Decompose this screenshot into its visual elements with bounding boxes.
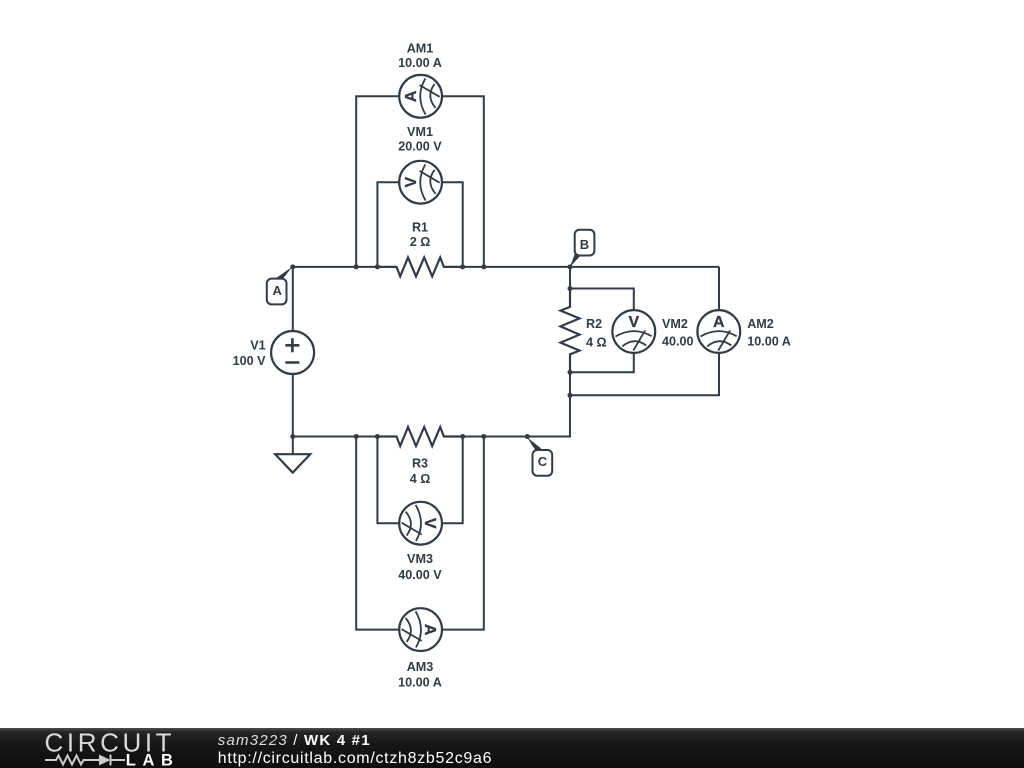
label VM3 <box>398 552 442 582</box>
wire VM3 loop right <box>441 437 462 524</box>
wire ground lead <box>292 437 294 455</box>
resistor R3 <box>377 427 462 446</box>
wire bottom main left <box>293 436 378 438</box>
svg-text:VM1: VM1 <box>407 125 433 139</box>
footer title <box>218 732 371 749</box>
logo CIRCUIT <box>45 728 176 758</box>
svg-text:V1: V1 <box>250 338 265 352</box>
svg-text:V: V <box>403 177 420 188</box>
svg-text:http://circuitlab.com/ctzh8zb5: http://circuitlab.com/ctzh8zb52c9a6 <box>218 750 492 767</box>
svg-text:40.00: 40.00 <box>662 334 694 348</box>
wire B vertical <box>569 267 571 289</box>
svg-text:R3: R3 <box>412 456 428 470</box>
ground <box>275 454 310 472</box>
svg-text:C: C <box>538 454 548 469</box>
footer url <box>218 750 492 767</box>
svg-text:100 V: 100 V <box>233 354 267 368</box>
voltmeter VM2 <box>612 310 655 353</box>
svg-text:A: A <box>421 624 438 636</box>
svg-text:sam3223 / WK 4 #1: sam3223 / WK 4 #1 <box>218 732 371 749</box>
svg-text:10.00 A: 10.00 A <box>398 675 442 689</box>
svg-text:40.00 V: 40.00 V <box>398 568 442 582</box>
svg-text:B: B <box>580 237 589 252</box>
junction dots top wire <box>290 264 572 269</box>
label R3 <box>410 456 431 486</box>
node B <box>570 230 594 267</box>
wire bottom main right <box>463 395 570 436</box>
label VM2 <box>662 317 694 348</box>
resistor R2 <box>561 288 580 373</box>
svg-text:VM2: VM2 <box>662 317 688 331</box>
svg-text:2 Ω: 2 Ω <box>410 235 431 249</box>
voltmeter VM3 <box>399 502 442 545</box>
svg-text:20.00 V: 20.00 V <box>398 140 442 154</box>
wire AM3 loop right <box>441 437 483 630</box>
label VM1 <box>398 125 442 153</box>
svg-text:AM2: AM2 <box>747 317 774 331</box>
wire top main left <box>293 266 378 268</box>
wire AM2 bottom <box>570 353 719 395</box>
wire VM2 top <box>570 289 634 311</box>
ammeter AM3 <box>399 608 442 651</box>
svg-text:4 Ω: 4 Ω <box>410 472 431 486</box>
wire VM1 loop right <box>441 182 462 267</box>
svg-text:10.00 A: 10.00 A <box>398 56 442 70</box>
label AM2 <box>747 317 791 348</box>
label R2 <box>586 317 607 349</box>
label AM3 <box>398 660 442 689</box>
logo doodle wire resistor diode <box>45 755 125 766</box>
svg-text:R1: R1 <box>412 221 428 235</box>
ammeter AM2 <box>697 310 740 353</box>
voltage source V1 <box>271 331 314 374</box>
wire V1 top <box>292 267 294 331</box>
svg-text:4 Ω: 4 Ω <box>586 336 607 350</box>
junction dots right branch <box>568 286 573 398</box>
label V1 <box>233 338 267 368</box>
node C <box>527 437 552 476</box>
voltmeter VM1 <box>399 161 442 204</box>
wire R2 to AM2 junction <box>569 372 571 395</box>
resistor R1 <box>377 257 462 276</box>
wire VM3 loop left <box>377 437 398 524</box>
wire AM3 loop left <box>356 437 398 630</box>
wire top main right to AM2 corner <box>463 266 719 268</box>
junction dots bottom wire <box>290 434 530 439</box>
svg-text:VM3: VM3 <box>407 552 433 566</box>
svg-text:AM3: AM3 <box>407 660 434 674</box>
svg-text:AM1: AM1 <box>407 41 434 55</box>
svg-text:V: V <box>421 518 438 529</box>
label R1 <box>410 221 431 249</box>
svg-text:R2: R2 <box>586 317 602 331</box>
ammeter AM1 <box>399 75 442 118</box>
wire AM2 right vertical <box>718 267 720 310</box>
logo LAB <box>126 752 180 768</box>
footer bar <box>0 728 1024 768</box>
wire VM1 loop left <box>377 182 398 267</box>
svg-text:10.00 A: 10.00 A <box>747 334 791 348</box>
wire AM1 loop right <box>441 96 483 267</box>
svg-text:A: A <box>403 90 420 102</box>
node A <box>267 267 293 305</box>
wire AM1 loop left <box>356 96 398 267</box>
label AM1 <box>398 41 442 69</box>
wire VM2 bottom <box>570 353 634 372</box>
svg-text:A: A <box>713 314 725 331</box>
svg-text:A: A <box>273 283 283 298</box>
wire V1 bottom <box>292 374 294 437</box>
svg-text:LAB: LAB <box>126 752 180 768</box>
svg-text:V: V <box>628 314 639 331</box>
